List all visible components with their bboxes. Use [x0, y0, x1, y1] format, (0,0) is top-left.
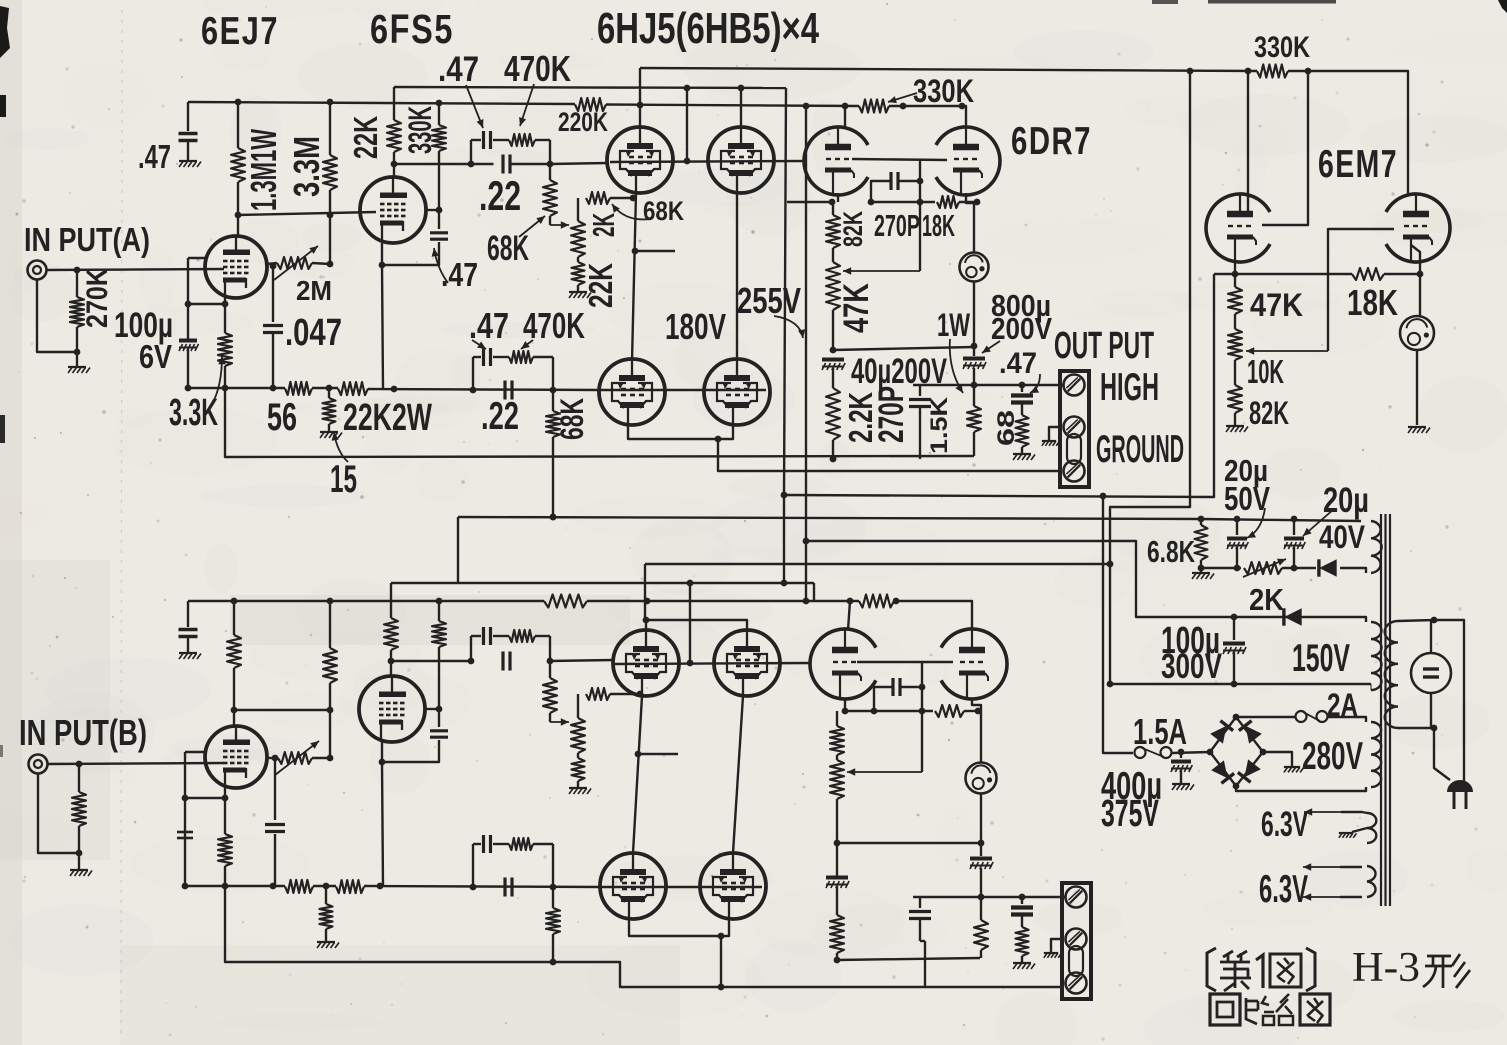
svg-text:82K: 82K: [838, 211, 868, 247]
svg-text:6HJ5(6HB5)×4: 6HJ5(6HB5)×4: [597, 5, 819, 53]
svg-text:OUT PUT: OUT PUT: [1054, 324, 1154, 366]
svg-text:6.8K: 6.8K: [1147, 534, 1195, 569]
svg-text:3.3M: 3.3M: [286, 136, 327, 197]
svg-text:1.3M1W: 1.3M1W: [243, 129, 284, 211]
svg-text:1W: 1W: [937, 307, 970, 343]
svg-text:.47: .47: [469, 305, 509, 346]
svg-text:470K: 470K: [504, 48, 571, 89]
svg-text:22K2W: 22K2W: [343, 396, 432, 438]
svg-text:22K: 22K: [348, 116, 385, 159]
svg-text:6EJ7: 6EJ7: [201, 10, 279, 53]
svg-text:2M: 2M: [296, 275, 332, 306]
svg-text:.47: .47: [138, 139, 171, 176]
svg-text:330K: 330K: [402, 106, 438, 154]
svg-text:6V: 6V: [139, 339, 173, 376]
svg-text:6.3V: 6.3V: [1259, 868, 1308, 911]
svg-text:.047: .047: [285, 311, 342, 353]
svg-text:6FS5: 6FS5: [370, 6, 454, 52]
svg-text:40µ200V: 40µ200V: [851, 352, 947, 391]
svg-text:68K: 68K: [554, 398, 590, 440]
svg-text:375V: 375V: [1101, 792, 1159, 834]
svg-text:150V: 150V: [1292, 637, 1350, 680]
svg-text:6.3V: 6.3V: [1261, 805, 1308, 844]
svg-text:3.3K: 3.3K: [169, 391, 218, 433]
svg-text:.22: .22: [479, 172, 521, 219]
svg-text:1.5A: 1.5A: [1133, 711, 1187, 752]
svg-text:15: 15: [330, 458, 357, 501]
svg-text:82K: 82K: [1249, 395, 1289, 431]
svg-text:330K: 330K: [1254, 31, 1310, 64]
svg-text:220K: 220K: [558, 107, 608, 137]
svg-text:H-3: H-3: [1352, 945, 1420, 991]
svg-text:20µ: 20µ: [1323, 481, 1369, 520]
svg-text:68: 68: [994, 410, 1020, 446]
svg-text:56: 56: [267, 396, 297, 439]
svg-text:200V: 200V: [991, 311, 1052, 346]
svg-text:280V: 280V: [1302, 735, 1363, 778]
svg-text:2A: 2A: [1327, 687, 1358, 723]
svg-text:2K: 2K: [1249, 582, 1284, 617]
svg-text:330K: 330K: [913, 73, 974, 109]
svg-text:300V: 300V: [1161, 647, 1223, 686]
svg-text:GROUND: GROUND: [1096, 428, 1184, 471]
svg-text:40V: 40V: [1319, 519, 1365, 555]
svg-text:18K: 18K: [922, 208, 955, 243]
svg-text:.47: .47: [441, 257, 478, 294]
svg-text:IN PUT(A): IN PUT(A): [24, 222, 150, 259]
svg-text:270P: 270P: [872, 386, 911, 443]
svg-text:2K: 2K: [586, 213, 621, 237]
svg-text:270P: 270P: [874, 208, 920, 243]
svg-text:1.5K: 1.5K: [927, 397, 953, 454]
svg-text:IN PUT(B): IN PUT(B): [19, 712, 147, 753]
svg-text:.47: .47: [999, 347, 1037, 380]
svg-text:10K: 10K: [1247, 354, 1284, 391]
svg-text:.22: .22: [481, 395, 519, 438]
svg-text:47K: 47K: [1250, 287, 1303, 323]
svg-text:68K: 68K: [643, 196, 684, 226]
svg-text:47K: 47K: [837, 283, 876, 333]
svg-text:18K: 18K: [1347, 282, 1398, 323]
svg-text:255V: 255V: [737, 280, 801, 321]
svg-text:270K: 270K: [81, 268, 114, 328]
svg-text:6EM7: 6EM7: [1318, 143, 1398, 186]
svg-text:.47: .47: [438, 50, 479, 89]
svg-text:180V: 180V: [665, 306, 726, 347]
svg-text:6DR7: 6DR7: [1011, 120, 1092, 163]
svg-text:22K: 22K: [583, 263, 620, 308]
svg-text:HIGH: HIGH: [1100, 366, 1159, 409]
